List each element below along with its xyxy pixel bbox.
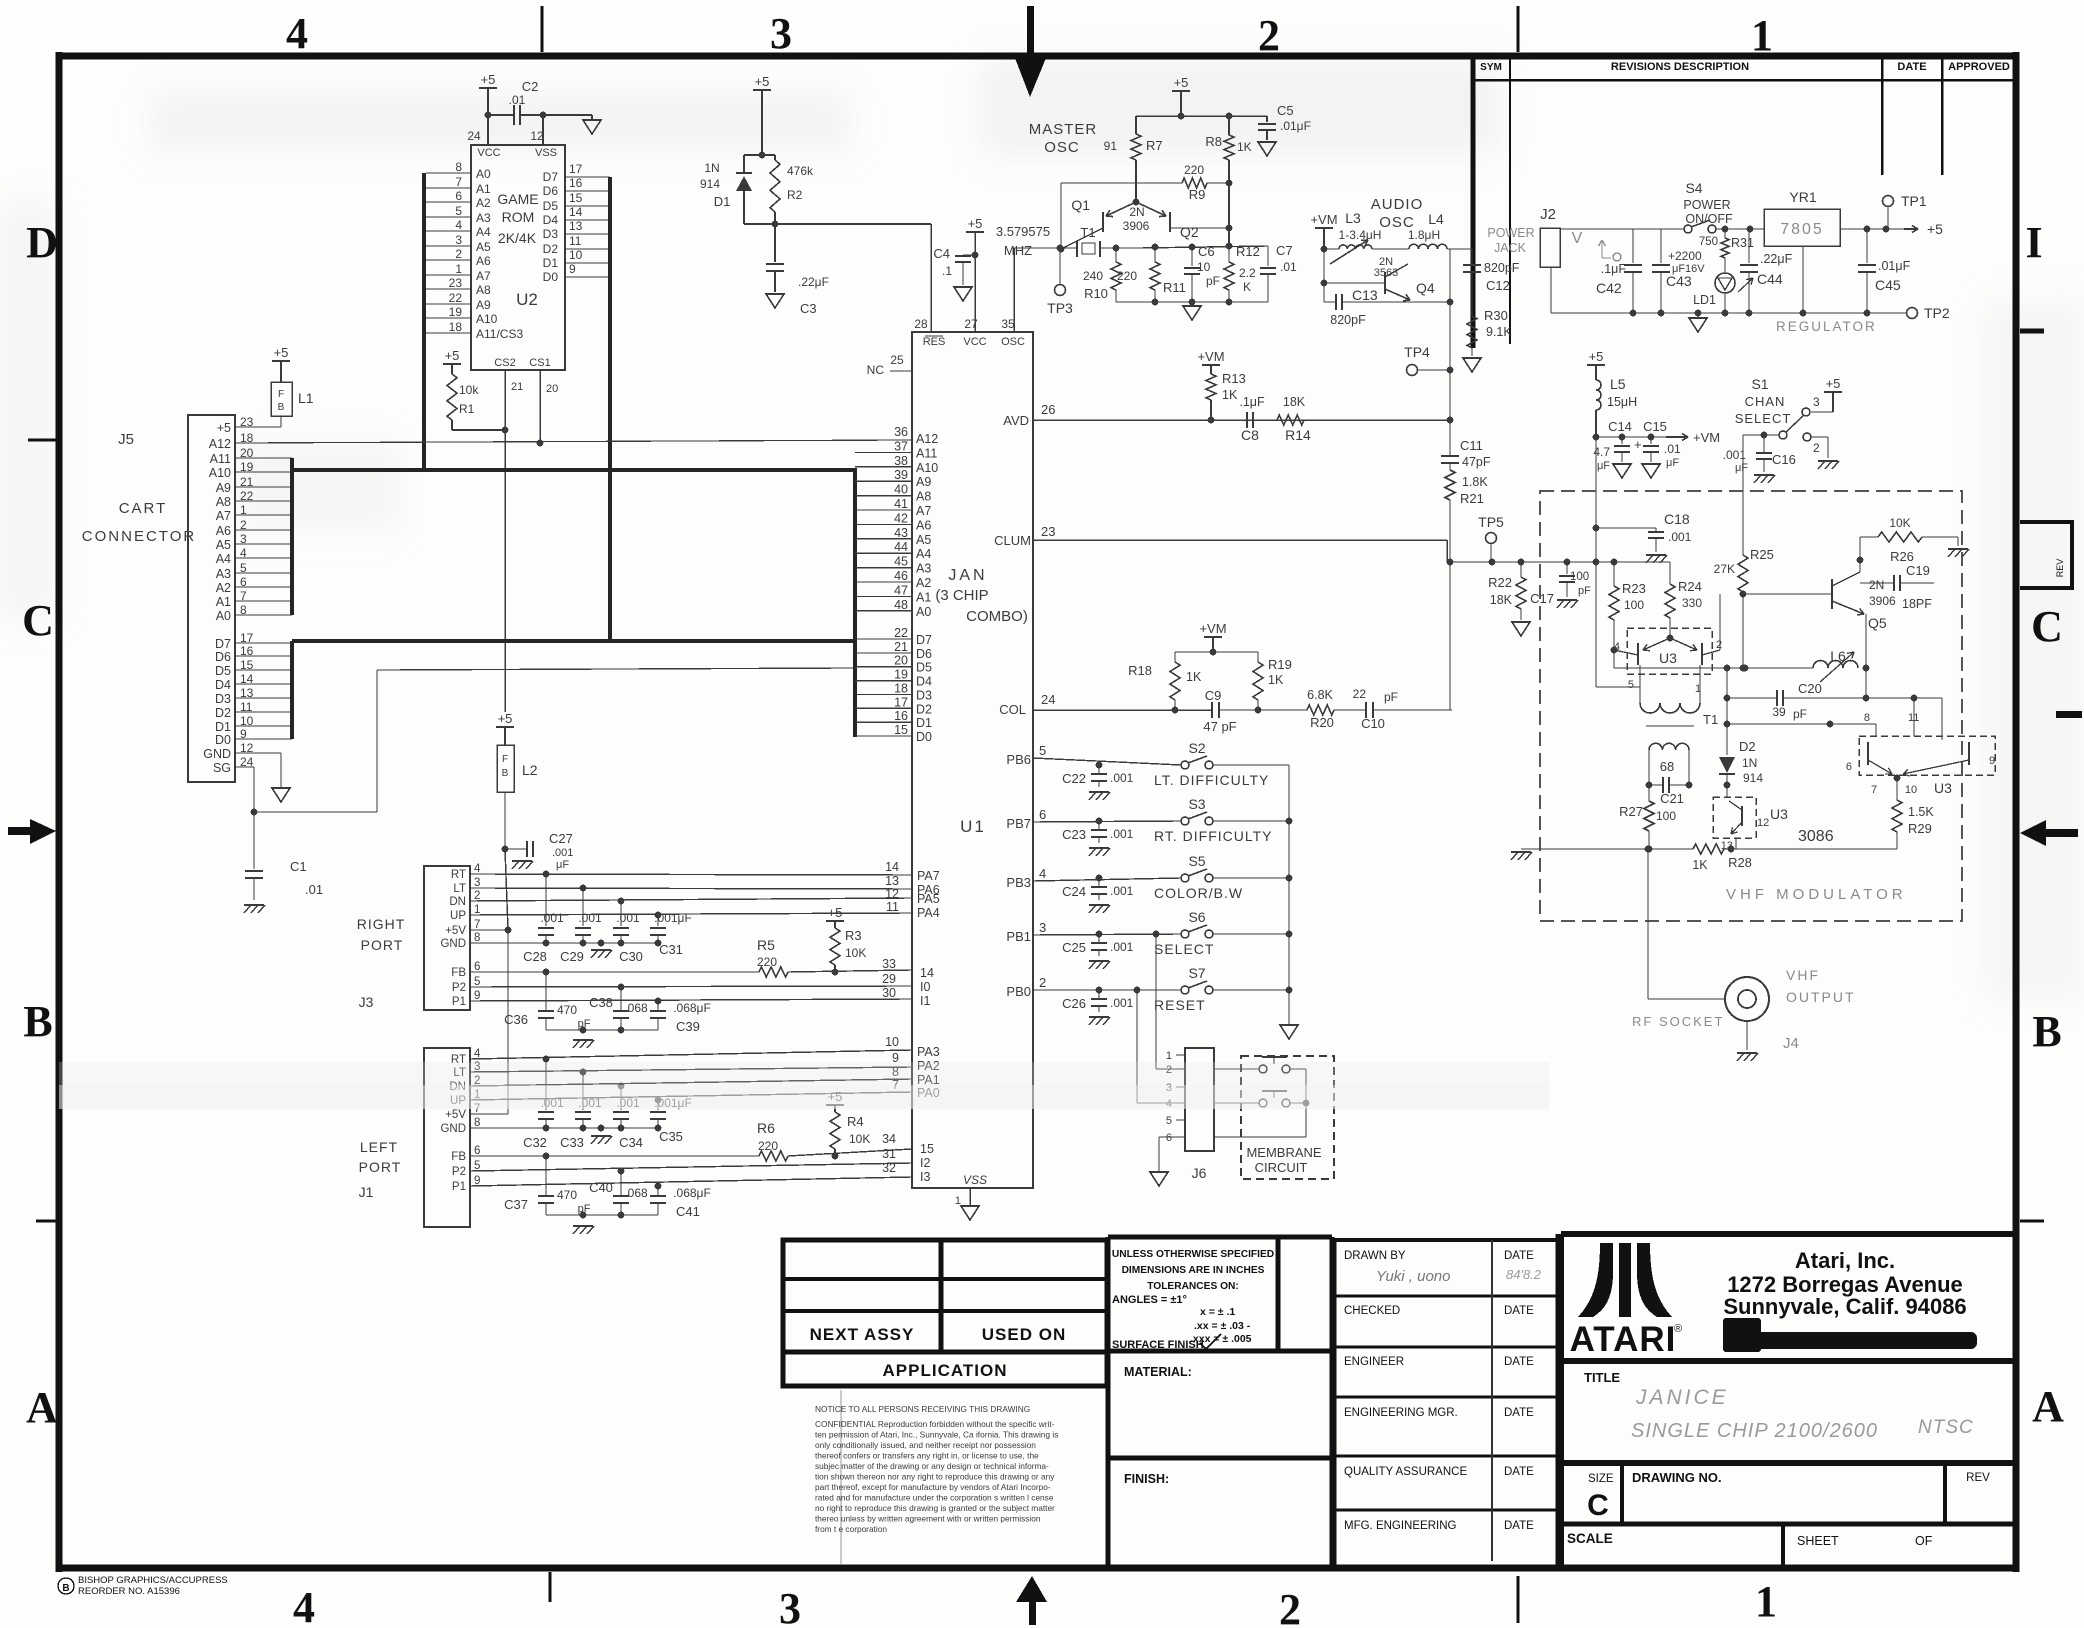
svg-text:D2: D2 (543, 242, 559, 256)
svg-text:4: 4 (1039, 866, 1046, 881)
svg-text:470: 470 (557, 1188, 577, 1202)
svg-text:S4: S4 (1685, 180, 1702, 196)
svg-text:13: 13 (885, 874, 899, 888)
svg-text:R19: R19 (1268, 657, 1292, 672)
svg-text:+5: +5 (1589, 349, 1604, 364)
svg-text:C30: C30 (619, 949, 643, 964)
svg-text:+VM: +VM (1199, 621, 1226, 636)
svg-text:32: 32 (882, 1161, 896, 1175)
svg-text:®: ® (1674, 1323, 1682, 1335)
svg-text:2N: 2N (1869, 578, 1884, 592)
svg-text:subjec matter of the drawing: subjec matter of the drawing or any desi… (815, 1461, 1049, 1471)
svg-text:D1: D1 (543, 256, 559, 270)
svg-text:22: 22 (449, 291, 463, 305)
svg-text:14: 14 (885, 860, 899, 874)
svg-text:R9: R9 (1189, 187, 1206, 202)
svg-text:+2200: +2200 (1668, 249, 1702, 263)
svg-text:A2: A2 (216, 581, 231, 595)
svg-text:C37: C37 (504, 1197, 528, 1212)
svg-text:6: 6 (474, 961, 480, 973)
svg-text:R11: R11 (1163, 280, 1186, 295)
svg-text:R6: R6 (757, 1120, 775, 1136)
svg-text:15: 15 (920, 1142, 934, 1156)
svg-text:APPLICATION: APPLICATION (883, 1361, 1008, 1380)
svg-text:JAN: JAN (948, 567, 987, 584)
svg-text:ENGINEER: ENGINEER (1344, 1356, 1404, 1368)
svg-text:R2: R2 (787, 188, 803, 202)
svg-text:R27: R27 (1619, 804, 1643, 819)
svg-text:C41: C41 (676, 1204, 700, 1219)
svg-text:A6: A6 (916, 518, 931, 532)
svg-text:9: 9 (569, 262, 576, 276)
svg-text:.001: .001 (552, 847, 573, 859)
svg-text:OF: OF (1915, 1534, 1933, 1548)
svg-text:A6: A6 (476, 254, 491, 268)
svg-text:PA3: PA3 (917, 1045, 940, 1059)
svg-text:D4: D4 (543, 213, 559, 227)
svg-text:L5: L5 (1610, 376, 1626, 392)
svg-text:pF: pF (578, 1018, 591, 1030)
svg-text:12: 12 (1757, 817, 1769, 829)
svg-text:μF: μF (1597, 460, 1610, 472)
svg-text:ENGINEERING MGR.: ENGINEERING MGR. (1344, 1407, 1458, 1419)
svg-text:VSS: VSS (535, 147, 557, 159)
svg-text:C35: C35 (659, 1129, 683, 1144)
svg-text:45: 45 (894, 555, 908, 569)
svg-text:23: 23 (1041, 524, 1055, 539)
svg-text:18K: 18K (1490, 593, 1513, 607)
svg-text:19: 19 (894, 668, 908, 682)
svg-text:R4: R4 (847, 1114, 864, 1129)
svg-text:D6: D6 (543, 184, 559, 198)
svg-text:S3: S3 (1188, 796, 1205, 812)
svg-text:A7: A7 (216, 509, 231, 523)
svg-text:CHECKED: CHECKED (1344, 1305, 1400, 1317)
svg-text:37: 37 (894, 439, 908, 453)
svg-text:D7: D7 (543, 170, 559, 184)
svg-text:8: 8 (455, 160, 462, 174)
svg-text:DATE: DATE (1504, 1407, 1534, 1419)
svg-text:J2: J2 (1540, 206, 1556, 223)
svg-text:MATERIAL:: MATERIAL: (1124, 1365, 1192, 1379)
svg-text:2: 2 (455, 247, 462, 261)
svg-text:5: 5 (1039, 743, 1046, 758)
svg-text:7: 7 (1871, 784, 1877, 796)
svg-text:A2: A2 (916, 576, 931, 590)
svg-text:A5: A5 (916, 533, 931, 547)
svg-text:R14: R14 (1285, 427, 1311, 443)
svg-text:A11: A11 (210, 452, 231, 466)
svg-text:48: 48 (894, 598, 908, 612)
svg-text:A7: A7 (916, 504, 931, 518)
svg-text:C21: C21 (1660, 791, 1684, 806)
svg-text:R1: R1 (459, 402, 475, 416)
svg-text:R25: R25 (1750, 547, 1774, 562)
svg-text:17: 17 (569, 162, 583, 176)
svg-text:.xx = ± .03 -: .xx = ± .03 - (1194, 1320, 1251, 1332)
svg-text:R24: R24 (1678, 579, 1702, 594)
svg-text:VCC: VCC (477, 147, 500, 159)
svg-text:44: 44 (894, 540, 908, 554)
svg-text:6: 6 (1039, 807, 1046, 822)
svg-text:L1: L1 (298, 390, 314, 406)
svg-text:TP3: TP3 (1047, 300, 1073, 316)
svg-text:CART: CART (119, 500, 168, 517)
svg-text:μF: μF (1735, 462, 1748, 474)
svg-text:only conditionally issued,: only conditionally issued, and neither r… (815, 1440, 1036, 1450)
svg-text:Q5: Q5 (1868, 615, 1887, 631)
svg-text:18K: 18K (1283, 395, 1306, 409)
svg-text:PA7: PA7 (917, 869, 940, 883)
svg-text:C29: C29 (560, 949, 584, 964)
svg-text:μF: μF (556, 859, 569, 871)
svg-text:9: 9 (474, 990, 480, 1002)
svg-text:C45: C45 (1875, 277, 1901, 293)
svg-text:L4: L4 (1428, 211, 1444, 227)
svg-text:CIRCUIT: CIRCUIT (1255, 1160, 1308, 1175)
svg-text:A0: A0 (916, 605, 931, 619)
svg-text:17: 17 (894, 695, 908, 709)
svg-text:C20: C20 (1798, 681, 1822, 696)
svg-text:10K: 10K (849, 1132, 870, 1146)
svg-text:D5: D5 (215, 664, 231, 678)
svg-text:5: 5 (1166, 1115, 1172, 1127)
svg-text:D6: D6 (215, 650, 231, 664)
svg-text:9.1K: 9.1K (1486, 325, 1512, 339)
svg-text:no right to reproduce this dra: no right to reproduce this drawing is gr… (815, 1503, 1055, 1513)
svg-text:SURFACE FINISH: SURFACE FINISH (1112, 1339, 1204, 1351)
svg-text:C1: C1 (290, 859, 307, 874)
svg-text:25: 25 (890, 353, 904, 367)
svg-text:GND: GND (440, 938, 466, 950)
svg-text:SELECT: SELECT (1735, 411, 1792, 426)
svg-text:15: 15 (569, 191, 583, 205)
svg-text:D: D (26, 218, 58, 267)
svg-text:D0: D0 (543, 270, 559, 284)
svg-text:29: 29 (882, 972, 896, 986)
svg-text:D5: D5 (916, 661, 932, 675)
svg-text:I3: I3 (920, 1170, 930, 1184)
svg-text:4: 4 (474, 863, 481, 875)
svg-text:R31: R31 (1731, 236, 1754, 250)
svg-text:.1μF: .1μF (1239, 395, 1265, 409)
svg-text:100: 100 (1656, 809, 1676, 823)
svg-text:R3: R3 (845, 928, 862, 943)
svg-text:16: 16 (894, 709, 908, 723)
svg-text:C42: C42 (1596, 280, 1622, 296)
svg-text:914: 914 (700, 177, 720, 191)
svg-text:A0: A0 (476, 167, 491, 181)
svg-text:C10: C10 (1361, 716, 1385, 731)
svg-text:C40: C40 (589, 1180, 613, 1195)
svg-text:4: 4 (455, 218, 462, 232)
svg-text:A9: A9 (916, 475, 931, 489)
svg-text:+VM: +VM (1310, 212, 1337, 227)
svg-text:DATE: DATE (1504, 1305, 1534, 1317)
svg-text:A8: A8 (216, 495, 231, 509)
svg-text:SHEET: SHEET (1797, 1534, 1839, 1548)
svg-text:C28: C28 (523, 949, 547, 964)
svg-text:MFG. ENGINEERING: MFG. ENGINEERING (1344, 1520, 1457, 1532)
svg-text:BISHOP GRAPHICS/ACCUPRESS: BISHOP GRAPHICS/ACCUPRESS (78, 1575, 228, 1586)
svg-text:+5: +5 (445, 348, 460, 363)
svg-text:POWER: POWER (1487, 226, 1534, 240)
svg-text:TP1: TP1 (1901, 193, 1927, 209)
svg-text:C13: C13 (1352, 287, 1378, 303)
svg-text:22: 22 (1353, 687, 1367, 701)
svg-text:39: 39 (894, 468, 908, 482)
svg-text:15μH: 15μH (1607, 395, 1637, 409)
svg-text:POWER: POWER (1683, 198, 1730, 212)
svg-text:.1: .1 (942, 264, 952, 278)
svg-text:LEFT: LEFT (360, 1139, 398, 1155)
svg-text:41: 41 (894, 497, 908, 511)
svg-text:2: 2 (1258, 11, 1280, 60)
svg-text:A11: A11 (916, 446, 937, 460)
svg-text:21: 21 (511, 381, 523, 393)
svg-text:6: 6 (1846, 761, 1852, 773)
svg-text:QUALITY ASSURANCE: QUALITY ASSURANCE (1344, 1466, 1467, 1478)
svg-text:22: 22 (894, 626, 908, 640)
svg-text:11: 11 (886, 900, 899, 914)
svg-text:820pF: 820pF (1330, 313, 1366, 327)
svg-text:TP5: TP5 (1478, 514, 1504, 530)
svg-text:+5: +5 (1826, 376, 1841, 391)
svg-text:A6: A6 (216, 524, 231, 538)
svg-text:+5: +5 (755, 74, 770, 89)
svg-text:A1: A1 (216, 595, 231, 609)
svg-text:SIZE: SIZE (1588, 1473, 1614, 1485)
svg-text:FINISH:: FINISH: (1124, 1472, 1169, 1486)
svg-text:10: 10 (885, 1035, 899, 1049)
svg-text:C5: C5 (1277, 103, 1294, 118)
svg-text:tion shown thereon nor any ri: tion shown thereon nor any right to repr… (815, 1472, 1055, 1482)
svg-text:R20: R20 (1310, 715, 1334, 730)
svg-text:D0: D0 (916, 730, 932, 744)
svg-text:I2: I2 (920, 1156, 930, 1170)
svg-text:.068: .068 (624, 1001, 648, 1015)
svg-text:+: + (1634, 437, 1642, 452)
svg-text:33: 33 (882, 957, 896, 971)
svg-text:D4: D4 (916, 675, 932, 689)
svg-text:PB7: PB7 (1006, 816, 1031, 831)
svg-text:.068μF: .068μF (673, 1186, 711, 1200)
svg-text:15: 15 (894, 723, 908, 737)
svg-text:+5: +5 (1927, 221, 1943, 237)
svg-text:84'8.2: 84'8.2 (1506, 1267, 1542, 1282)
svg-text:D3: D3 (916, 688, 932, 702)
svg-text:35: 35 (1001, 317, 1015, 331)
svg-text:10: 10 (1197, 260, 1211, 274)
svg-text:16: 16 (569, 176, 583, 190)
svg-text:470: 470 (557, 1003, 577, 1017)
svg-text:1K: 1K (1237, 140, 1252, 154)
svg-text:A5: A5 (216, 538, 231, 552)
svg-text:C24: C24 (1062, 884, 1086, 899)
svg-text:7: 7 (474, 919, 480, 931)
svg-text:REGULATOR: REGULATOR (1776, 319, 1877, 334)
svg-text:PB6: PB6 (1006, 752, 1031, 767)
svg-text:100: 100 (1570, 571, 1589, 583)
svg-text:C19: C19 (1906, 563, 1930, 578)
svg-text:1N: 1N (1742, 756, 1757, 770)
svg-text:GND: GND (203, 747, 231, 761)
svg-text:.01μF: .01μF (1878, 259, 1911, 273)
svg-text:B: B (62, 1583, 69, 1594)
svg-text:L2: L2 (522, 762, 538, 778)
svg-text:pF: pF (1384, 690, 1398, 704)
svg-text:JACK: JACK (1494, 241, 1527, 255)
svg-text:CS2: CS2 (494, 357, 515, 369)
svg-text:1: 1 (455, 262, 462, 276)
svg-text:3086: 3086 (1798, 828, 1834, 845)
svg-text:C15: C15 (1643, 419, 1667, 434)
svg-text:13: 13 (569, 219, 583, 233)
svg-text:1N: 1N (704, 161, 719, 175)
svg-text:ten permission of Atari, Inc.,: ten permission of Atari, Inc., Sunnyvale… (815, 1430, 1058, 1440)
svg-text:A: A (26, 1383, 58, 1432)
svg-text:APPROVED: APPROVED (1948, 61, 2010, 73)
svg-text:AVD: AVD (1003, 413, 1029, 428)
svg-text:C7: C7 (1276, 243, 1293, 258)
svg-text:F: F (278, 389, 284, 400)
svg-text:47 pF: 47 pF (1203, 719, 1236, 734)
svg-text:C: C (1587, 1489, 1609, 1522)
svg-text:U3: U3 (1770, 806, 1788, 822)
svg-text:CONNECTOR: CONNECTOR (82, 528, 196, 545)
svg-text:6.8K: 6.8K (1307, 688, 1333, 702)
svg-text:GND: GND (440, 1123, 466, 1135)
svg-text:R7: R7 (1146, 138, 1163, 153)
svg-text:91: 91 (1104, 139, 1118, 153)
svg-text:ROM: ROM (502, 209, 535, 225)
svg-text:3: 3 (1039, 920, 1046, 935)
svg-text:U2: U2 (516, 290, 538, 309)
svg-text:C2: C2 (522, 79, 539, 94)
svg-text:.22μF: .22μF (798, 275, 829, 289)
svg-text:1: 1 (474, 904, 480, 916)
svg-text:D7: D7 (215, 637, 231, 651)
svg-text:D2: D2 (215, 706, 231, 720)
svg-text:pF: pF (1206, 274, 1220, 288)
svg-text:NOTICE TO ALL PERSONS RECEIVIN: NOTICE TO ALL PERSONS RECEIVING THIS DRA… (815, 1404, 1030, 1414)
svg-text:LD1: LD1 (1693, 293, 1716, 307)
svg-text:S5: S5 (1188, 853, 1205, 869)
svg-text:2: 2 (1279, 1585, 1301, 1628)
svg-text:476k: 476k (787, 164, 814, 178)
svg-text:OSC: OSC (1001, 336, 1025, 348)
svg-text:14: 14 (920, 966, 934, 980)
svg-text:DRAWING NO.: DRAWING NO. (1632, 1470, 1722, 1485)
svg-text:FB: FB (451, 1151, 466, 1163)
svg-text:3.579575: 3.579575 (996, 224, 1050, 239)
svg-text:R5: R5 (757, 937, 775, 953)
svg-text:Q1: Q1 (1071, 197, 1090, 213)
svg-text:R30: R30 (1484, 308, 1508, 323)
svg-text:PA4: PA4 (917, 906, 940, 920)
svg-text:A3: A3 (916, 562, 931, 576)
svg-text:TOLERANCES ON:: TOLERANCES ON: (1147, 1281, 1239, 1292)
svg-text:+VM: +VM (1197, 349, 1224, 364)
svg-text:14: 14 (569, 205, 583, 219)
svg-text:A0: A0 (216, 609, 231, 623)
svg-text:P1: P1 (452, 996, 466, 1008)
svg-text:UP: UP (450, 910, 466, 922)
svg-text:43: 43 (894, 526, 908, 540)
svg-text:.001: .001 (540, 911, 564, 925)
svg-text:SINGLE CHIP 2100/2600: SINGLE CHIP 2100/2600 (1631, 1420, 1878, 1442)
svg-text:PORT: PORT (359, 1159, 402, 1175)
svg-text:Atari, Inc.: Atari, Inc. (1795, 1248, 1895, 1273)
svg-text:REV: REV (1966, 1472, 1990, 1484)
svg-text:+5: +5 (828, 905, 843, 920)
svg-text:P1: P1 (452, 1181, 466, 1193)
svg-text:A7: A7 (476, 269, 491, 283)
svg-text:part thereof, except for manuf: part thereof, except for manufacture by … (815, 1482, 1051, 1492)
svg-text:C: C (22, 596, 54, 645)
svg-text:P2: P2 (452, 1166, 466, 1178)
svg-text:C9: C9 (1205, 688, 1222, 703)
svg-text:C11: C11 (1460, 438, 1483, 453)
svg-text:1: 1 (1751, 11, 1773, 60)
svg-text:LT. DIFFICULTY: LT. DIFFICULTY (1154, 772, 1269, 788)
svg-text:+5: +5 (481, 72, 496, 87)
svg-text:C3: C3 (800, 301, 817, 316)
svg-text:914: 914 (1743, 771, 1763, 785)
svg-text:SELECT: SELECT (1154, 941, 1214, 957)
svg-text:R29: R29 (1908, 821, 1932, 836)
svg-text:U3: U3 (1659, 650, 1677, 666)
svg-text:D1: D1 (916, 716, 932, 730)
svg-text:.001: .001 (1110, 771, 1134, 785)
svg-text:7805: 7805 (1780, 221, 1824, 238)
svg-text:U1: U1 (960, 817, 986, 836)
svg-text:C34: C34 (619, 1135, 643, 1150)
svg-text:1.8μH: 1.8μH (1408, 228, 1440, 242)
svg-text:C23: C23 (1062, 827, 1086, 842)
svg-text:+5: +5 (968, 216, 983, 231)
svg-text:A9: A9 (216, 481, 231, 495)
svg-text:Yuki , uono: Yuki , uono (1376, 1268, 1451, 1285)
svg-text:A10: A10 (476, 312, 498, 326)
svg-text:3: 3 (474, 877, 480, 889)
svg-text:F: F (502, 754, 508, 765)
svg-text:VHF MODULATOR: VHF MODULATOR (1726, 886, 1907, 903)
svg-text:23: 23 (449, 276, 463, 290)
svg-text:A3: A3 (476, 211, 491, 225)
svg-text:1: 1 (1755, 1577, 1777, 1626)
svg-text:+5V: +5V (445, 925, 466, 937)
svg-text:C6: C6 (1198, 244, 1215, 259)
svg-text:T1: T1 (1080, 225, 1095, 240)
svg-text:+5: +5 (1174, 75, 1189, 90)
svg-text:MASTER: MASTER (1029, 121, 1098, 138)
svg-text:JANICE: JANICE (1635, 1386, 1729, 1409)
svg-text:A9: A9 (476, 298, 491, 312)
svg-text:10k: 10k (459, 383, 479, 397)
svg-text:220: 220 (1117, 269, 1137, 283)
svg-text:+5V: +5V (445, 1109, 466, 1121)
svg-text:R21: R21 (1460, 491, 1484, 506)
svg-text:2: 2 (1716, 639, 1722, 651)
svg-text:L3: L3 (1345, 210, 1361, 226)
svg-text:D7: D7 (916, 633, 932, 647)
svg-text:TP4: TP4 (1404, 344, 1430, 360)
svg-text:DIMENSIONS ARE IN INCHES: DIMENSIONS ARE IN INCHES (1122, 1265, 1265, 1276)
svg-text:C44: C44 (1757, 271, 1783, 287)
svg-text:B: B (23, 997, 52, 1046)
svg-text:4: 4 (1614, 641, 1620, 653)
